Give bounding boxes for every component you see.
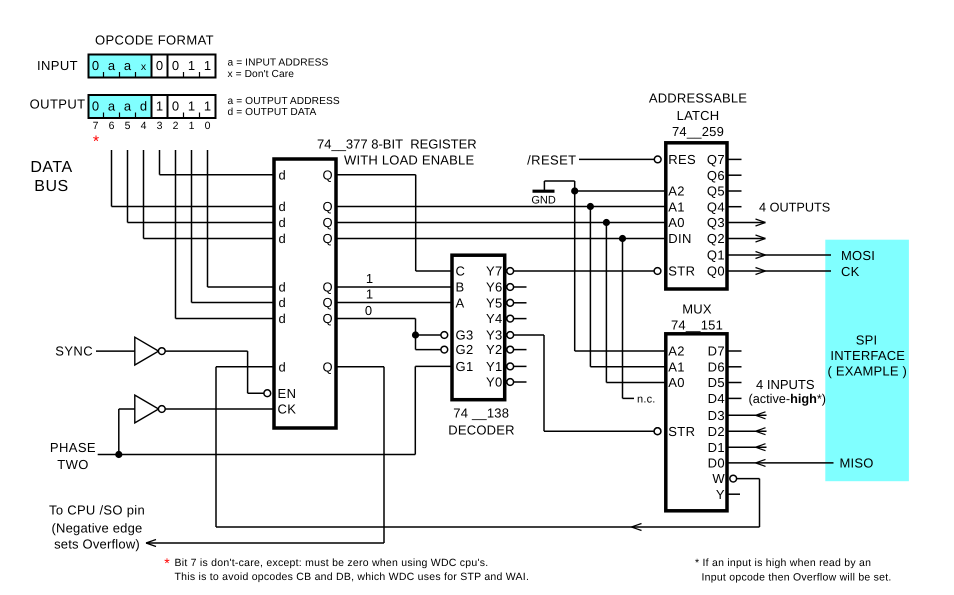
svg-text:4 OUTPUTS: 4 OUTPUTS [759, 201, 830, 215]
svg-text:74__259: 74__259 [672, 124, 724, 139]
svg-text:Q: Q [322, 295, 333, 310]
svg-text:Q: Q [322, 199, 333, 214]
svg-text:GND: GND [531, 195, 556, 207]
svg-text:1: 1 [189, 120, 195, 132]
svg-text:TWO: TWO [57, 457, 89, 472]
svg-text:DATA: DATA [30, 159, 72, 176]
svg-text:0: 0 [172, 99, 179, 114]
svg-text:G1: G1 [456, 359, 474, 374]
svg-text:A0: A0 [668, 215, 685, 230]
svg-text:3: 3 [157, 120, 163, 132]
svg-text:d: d [279, 295, 287, 310]
svg-text:Y3: Y3 [486, 328, 503, 343]
svg-text:a = INPUT ADDRESS: a = INPUT ADDRESS [228, 58, 329, 69]
svg-text:LATCH: LATCH [677, 108, 720, 123]
svg-text:STR: STR [668, 264, 695, 279]
svg-text:74 __138: 74 __138 [453, 406, 509, 421]
svg-text:A2: A2 [668, 344, 685, 359]
svg-text:Y2: Y2 [486, 342, 503, 357]
svg-text:D0: D0 [708, 456, 725, 471]
svg-text:B: B [456, 280, 465, 295]
svg-text:EN: EN [278, 386, 297, 401]
svg-text:a: a [124, 99, 132, 114]
svg-text:A2: A2 [668, 184, 685, 199]
svg-text:Q6: Q6 [707, 168, 725, 183]
svg-text:D1: D1 [708, 440, 725, 455]
svg-text:Q1: Q1 [707, 248, 725, 263]
svg-text:1: 1 [204, 99, 211, 114]
svg-text:Input opcode then Overflow wil: Input opcode then Overflow will be set. [702, 572, 892, 584]
svg-text:Y4: Y4 [486, 311, 503, 326]
svg-text:G2: G2 [456, 342, 474, 357]
svg-text:Q2: Q2 [707, 231, 725, 246]
svg-text:0: 0 [205, 120, 211, 132]
svg-text:d: d [279, 167, 287, 182]
svg-text:Y0: Y0 [486, 375, 503, 390]
svg-text:WITH LOAD ENABLE: WITH LOAD ENABLE [344, 153, 474, 168]
svg-text:INPUT: INPUT [37, 58, 78, 73]
svg-text:D6: D6 [708, 359, 725, 374]
svg-text:d: d [279, 199, 287, 214]
svg-text:4 INPUTS: 4 INPUTS [756, 377, 815, 392]
svg-text:Q: Q [322, 231, 333, 246]
svg-text:A: A [456, 295, 465, 310]
svg-text:D4: D4 [708, 391, 725, 406]
svg-text:Q7: Q7 [707, 152, 725, 167]
svg-text:a: a [108, 99, 116, 114]
svg-text:(active-high*): (active-high*) [749, 392, 827, 406]
svg-text:Q5: Q5 [707, 184, 725, 199]
svg-text:W: W [712, 471, 725, 486]
svg-text:This is to avoid opcodes CB an: This is to avoid opcodes CB and DB, whic… [175, 571, 530, 583]
svg-text:Q: Q [322, 359, 333, 374]
svg-text:A1: A1 [668, 359, 685, 374]
svg-text:sets Overflow): sets Overflow) [54, 537, 140, 552]
svg-text:7: 7 [93, 120, 99, 132]
svg-text:ADDRESSABLE: ADDRESSABLE [649, 91, 747, 106]
svg-text:INTERFACE: INTERFACE [830, 348, 905, 363]
svg-text:SPI: SPI [856, 333, 878, 348]
svg-text:(Negative edge: (Negative edge [52, 520, 143, 535]
svg-text:d: d [279, 231, 287, 246]
svg-text:0: 0 [365, 303, 372, 318]
svg-text:0: 0 [92, 99, 99, 114]
svg-text:a = OUTPUT ADDRESS: a = OUTPUT ADDRESS [228, 96, 340, 107]
svg-text:n.c.: n.c. [637, 393, 656, 405]
svg-text:D7: D7 [708, 344, 725, 359]
svg-text:a: a [124, 58, 132, 73]
svg-text:Q: Q [322, 311, 333, 326]
svg-text:D5: D5 [708, 375, 725, 390]
svg-text:Bit 7 is don't-care, except: m: Bit 7 is don't-care, except: must be zer… [175, 557, 489, 569]
svg-text:Q3: Q3 [707, 215, 725, 230]
svg-text:74__377 8-BIT REGISTER: 74__377 8-BIT REGISTER [317, 137, 477, 152]
svg-text:Q0: Q0 [707, 264, 725, 279]
svg-text:Y6: Y6 [486, 280, 503, 295]
svg-text:0: 0 [172, 58, 179, 73]
svg-text:DIN: DIN [668, 231, 692, 246]
svg-text:1: 1 [188, 99, 195, 114]
svg-text:A0: A0 [668, 375, 685, 390]
svg-text:G3: G3 [456, 328, 474, 343]
svg-text:0: 0 [92, 58, 99, 73]
svg-text:D3: D3 [708, 408, 725, 423]
svg-text:0: 0 [156, 58, 163, 73]
svg-text:a: a [108, 58, 116, 73]
svg-text:/RESET: /RESET [527, 152, 576, 167]
svg-text:Y1: Y1 [486, 359, 503, 374]
svg-text:BUS: BUS [34, 178, 68, 195]
svg-text:CK: CK [278, 401, 297, 416]
svg-text:2: 2 [173, 120, 179, 132]
svg-text:1: 1 [366, 287, 373, 302]
svg-text:* If an input is high when rea: * If an input is high when read by an [695, 557, 871, 569]
svg-text:d: d [140, 99, 147, 114]
svg-text:SYNC: SYNC [55, 344, 93, 359]
svg-text:Y7: Y7 [486, 264, 503, 279]
svg-text:d = OUTPUT DATA: d = OUTPUT DATA [228, 107, 317, 118]
svg-text:Q: Q [322, 215, 333, 230]
svg-text:74__151: 74__151 [671, 318, 723, 333]
svg-text:CK: CK [841, 264, 860, 279]
svg-text:OUTPUT: OUTPUT [30, 97, 86, 112]
svg-text:4: 4 [141, 120, 147, 132]
svg-text:Y5: Y5 [486, 295, 503, 310]
svg-text:6: 6 [109, 120, 115, 132]
svg-text:*: * [164, 555, 170, 571]
svg-text:1: 1 [366, 271, 373, 286]
svg-text:x: x [141, 61, 147, 73]
svg-text:PHASE: PHASE [50, 440, 96, 455]
svg-text:*: * [93, 134, 99, 151]
svg-text:d: d [279, 359, 287, 374]
svg-text:RES: RES [668, 152, 696, 167]
svg-text:Q4: Q4 [707, 199, 725, 214]
svg-text:1: 1 [204, 58, 211, 73]
svg-text:d: d [279, 280, 287, 295]
svg-text:5: 5 [125, 120, 131, 132]
svg-text:MISO: MISO [840, 456, 874, 471]
svg-text:( EXAMPLE ): ( EXAMPLE ) [828, 364, 908, 379]
svg-text:Q: Q [322, 280, 333, 295]
svg-text:MOSI: MOSI [841, 248, 875, 263]
svg-text:Y: Y [716, 487, 725, 502]
svg-text:OPCODE FORMAT: OPCODE FORMAT [95, 33, 214, 48]
svg-text:DECODER: DECODER [448, 423, 514, 438]
svg-text:D2: D2 [708, 424, 725, 439]
svg-text:To CPU /SO pin: To CPU /SO pin [49, 503, 145, 518]
svg-text:1: 1 [188, 58, 195, 73]
svg-text:A1: A1 [668, 199, 685, 214]
svg-text:1: 1 [156, 99, 163, 114]
svg-text:d: d [279, 215, 287, 230]
svg-text:Q: Q [322, 167, 333, 182]
svg-text:C: C [456, 264, 466, 279]
svg-text:x = Don't Care: x = Don't Care [228, 69, 295, 80]
svg-text:MUX: MUX [682, 302, 712, 317]
svg-text:d: d [279, 311, 287, 326]
svg-text:STR: STR [668, 424, 695, 439]
